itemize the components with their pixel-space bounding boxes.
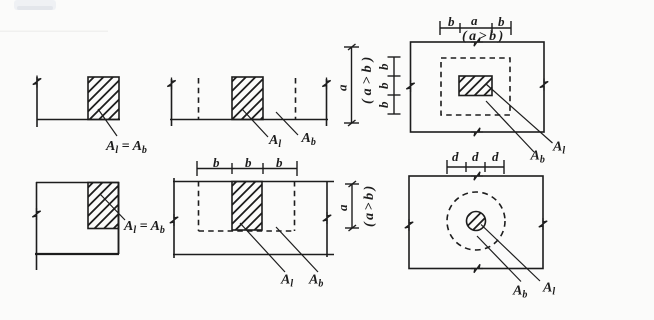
svg-text:(a>b): (a>b) — [362, 183, 377, 227]
svg-text:b: b — [213, 155, 220, 170]
svg-text:Al = Ab: Al = Ab — [123, 219, 165, 236]
svg-text:d: d — [492, 149, 499, 164]
svg-text:d: d — [472, 149, 479, 164]
svg-text:a: a — [471, 13, 478, 28]
svg-text:b: b — [448, 14, 455, 29]
svg-text:b: b — [245, 155, 252, 170]
svg-text:b: b — [276, 155, 283, 170]
svg-text:(a>b): (a>b) — [462, 29, 506, 44]
svg-text:(a>b): (a>b) — [360, 53, 375, 104]
svg-text:b: b — [376, 101, 391, 108]
svg-text:a: a — [335, 204, 350, 211]
svg-text:b: b — [376, 63, 391, 70]
svg-text:d: d — [452, 149, 459, 164]
svg-text:b: b — [376, 82, 391, 89]
svg-text:b: b — [498, 14, 505, 29]
svg-text:Al = Ab: Al = Ab — [105, 139, 147, 156]
svg-text:a: a — [335, 84, 350, 91]
